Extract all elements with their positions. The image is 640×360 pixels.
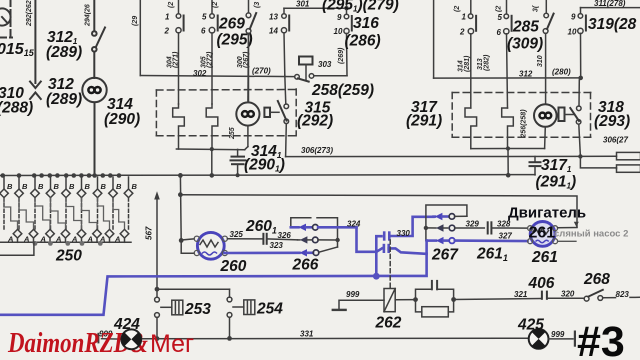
blue wire main run <box>0 241 427 315</box>
blue branch to contacts 330 <box>376 236 381 276</box>
svg-text:(295): (295) <box>217 32 253 49</box>
svg-text:(3: (3 <box>254 2 261 8</box>
switch on wire 310 <box>543 0 553 104</box>
contact 316 pins 9-10 <box>344 14 352 75</box>
svg-text:310: 310 <box>537 55 544 67</box>
svg-text:316: 316 <box>353 15 379 32</box>
wire 312(280) <box>434 77 581 79</box>
capacitor 317_1 <box>530 157 541 175</box>
contact 267 row1 <box>434 213 467 220</box>
svg-text:323: 323 <box>270 241 284 250</box>
svg-text:(271): (271) <box>173 51 180 68</box>
bank output wire <box>0 242 34 255</box>
resistor R1 in box1 <box>173 104 185 149</box>
fuse box top wire <box>157 288 230 290</box>
thermal relay armature 315 <box>264 108 279 117</box>
rotated wire labels 304(271) 305(272) 300(267) <box>167 51 251 68</box>
svg-text:306(273): 306(273) <box>301 146 333 155</box>
contact 319 pins 9-10 <box>578 14 586 78</box>
svg-text:330: 330 <box>397 229 411 238</box>
resistor branch RC <box>416 300 454 312</box>
svg-text:10: 10 <box>568 28 577 37</box>
junction fuse box <box>155 287 160 292</box>
top diamond contacts <box>0 189 133 198</box>
bracket 267 <box>426 205 467 240</box>
svg-text:В: В <box>7 182 13 191</box>
junction dots bus331 <box>155 336 232 341</box>
bracket 266 <box>291 218 338 247</box>
svg-text:(272): (272) <box>207 51 214 68</box>
junction bus2 <box>178 192 183 197</box>
wire 320 <box>547 297 584 299</box>
dashed instrument box <box>0 0 12 38</box>
wire bus1 to bus2 to motor260 <box>179 175 182 240</box>
svg-text:(293): (293) <box>594 113 630 130</box>
svg-text:(282): (282) <box>484 54 491 71</box>
relay 258 armature <box>299 57 313 80</box>
svg-text:303: 303 <box>318 60 332 69</box>
connector fork node 310 <box>30 82 41 100</box>
svg-text:320: 320 <box>561 289 575 298</box>
svg-text:5: 5 <box>498 13 503 22</box>
svg-text:#3: #3 <box>577 318 625 360</box>
svg-text:269: 269 <box>218 16 245 33</box>
svg-text:(289): (289) <box>46 44 82 61</box>
wire 294(263) <box>93 0 95 31</box>
svg-text:6: 6 <box>201 27 206 36</box>
svg-text:2: 2 <box>459 28 465 37</box>
wire 301 <box>284 0 347 14</box>
bank bottom bus <box>0 238 131 242</box>
svg-text:(281): (281) <box>464 55 471 72</box>
svg-text:255: 255 <box>229 127 236 140</box>
bus2 <box>180 195 577 227</box>
svg-text:(2: (2 <box>168 2 175 8</box>
wire to resistor row2 <box>580 156 616 168</box>
contact 330 lower <box>376 245 426 254</box>
svg-text:261: 261 <box>531 249 558 266</box>
resistor R5 right edge <box>617 152 640 159</box>
mechanical link 262 dashed <box>389 240 391 288</box>
svg-text:(309): (309) <box>507 36 543 53</box>
svg-text:сляный насос 2: сляный насос 2 <box>554 229 628 240</box>
junction 266 <box>335 238 339 242</box>
svg-text:В: В <box>54 182 60 191</box>
svg-text:(290): (290) <box>104 111 140 128</box>
wire 567 with arrow <box>154 191 160 297</box>
blue wire 324 branch <box>357 227 377 252</box>
svg-text:302: 302 <box>193 69 207 78</box>
svg-text:(280): (280) <box>552 68 571 77</box>
resistor R2 in box1 <box>206 104 218 149</box>
small rotated marks at top <box>168 2 261 8</box>
svg-text:329: 329 <box>466 220 480 229</box>
switch 318(293) <box>570 80 581 156</box>
svg-text:В: В <box>22 182 28 191</box>
svg-text:(288): (288) <box>0 100 33 117</box>
svg-text:В: В <box>69 182 75 191</box>
contact 266 row3 <box>300 247 338 257</box>
wire 302(270) <box>140 0 294 77</box>
fuse 253 <box>161 300 183 315</box>
svg-text:327: 327 <box>499 231 513 240</box>
B labels row <box>7 182 138 191</box>
svg-text:311(278): 311(278) <box>594 0 626 8</box>
svg-text:425: 425 <box>517 317 544 334</box>
svg-text:268: 268 <box>583 271 610 288</box>
thermal relay armature 318 <box>559 108 575 122</box>
svg-text:292(262: 292(262 <box>26 0 33 27</box>
resistor R3 in box2 <box>465 108 477 149</box>
resistor R6 right edge <box>617 165 640 172</box>
node RC left <box>413 297 418 302</box>
svg-text:14: 14 <box>269 27 278 36</box>
svg-text:(270): (270) <box>252 67 271 76</box>
svg-text:406: 406 <box>528 275 555 292</box>
svg-text:567: 567 <box>145 226 154 240</box>
svg-text:10: 10 <box>334 27 343 36</box>
svg-text:312: 312 <box>519 70 533 79</box>
svg-text:(2: (2 <box>212 2 219 8</box>
wire 999 right <box>549 332 575 346</box>
svg-text:5: 5 <box>202 13 207 22</box>
svg-text:В: В <box>101 182 107 191</box>
wire 328 <box>491 227 527 229</box>
svg-text:326: 326 <box>278 231 292 240</box>
gauge U015 <box>0 8 11 25</box>
svg-text:324: 324 <box>347 220 361 229</box>
wire motor261 right top <box>558 227 577 229</box>
svg-text:306(27: 306(27 <box>603 136 628 145</box>
svg-text:2: 2 <box>164 27 170 36</box>
A labels row <box>7 235 120 244</box>
contact 267 row2 <box>426 224 484 231</box>
contact 266 row1 <box>291 224 357 231</box>
wire 292(262) <box>34 0 36 83</box>
svg-text:321: 321 <box>514 290 528 299</box>
svg-text:(269): (269) <box>338 47 345 64</box>
wire 325 <box>228 238 262 240</box>
contact 266 row2 <box>298 236 338 243</box>
contact 285 pins 5-6 <box>504 0 512 108</box>
contact 267 row3 <box>427 237 528 244</box>
svg-text:3(: 3( <box>533 5 540 12</box>
ground 424 corpus <box>121 329 141 349</box>
svg-text:(289): (289) <box>46 91 82 108</box>
svg-text:999: 999 <box>551 330 565 339</box>
ground 425 corpus <box>529 329 549 349</box>
svg-text:В: В <box>85 182 91 191</box>
bus1 junction dots <box>1 173 240 178</box>
svg-text:13: 13 <box>269 13 278 22</box>
bus1 (minus bus) <box>0 174 535 177</box>
cam stepped wires <box>4 198 125 230</box>
wire 306(273) long line <box>286 155 581 157</box>
svg-text:В: В <box>38 182 44 191</box>
wire R2 to bus <box>211 149 213 175</box>
svg-text:325: 325 <box>230 230 244 239</box>
wire 303 <box>314 75 347 77</box>
wire to resistor row1 <box>580 155 616 157</box>
ground chassis 999 left <box>333 300 384 310</box>
junction 267 <box>424 226 428 230</box>
svg-text:260: 260 <box>220 258 247 275</box>
switch 303 on line 302 <box>295 74 314 82</box>
node RC right <box>451 297 456 302</box>
junction on 312 line <box>578 76 583 81</box>
contact 285 pins 1-2 <box>468 0 476 108</box>
svg-text:(2: (2 <box>454 6 461 12</box>
svg-text:261: 261 <box>529 225 556 242</box>
rotated wire labels 314(281) 313(282) 310 <box>454 5 544 72</box>
svg-text:823: 823 <box>616 290 630 299</box>
svg-text:(286): (286) <box>345 33 381 50</box>
contact 269 pins 13-14 <box>281 8 289 75</box>
junction motor260 feed <box>179 238 184 243</box>
resistor R4 in box2 <box>502 108 514 149</box>
wire 999 to 424 <box>98 334 121 343</box>
svg-text:9: 9 <box>571 13 576 22</box>
svg-text:6: 6 <box>497 28 502 37</box>
svg-text:267: 267 <box>431 247 459 264</box>
wire from (279) top <box>433 0 435 78</box>
svg-text:331: 331 <box>300 329 314 338</box>
wire lamp312 to bus <box>94 102 96 175</box>
contact 269 pins 5-6 <box>209 0 218 104</box>
svg-text:294(26: 294(26 <box>85 4 92 27</box>
lamp 256(258) in box2 <box>534 104 557 148</box>
switch 315(292) <box>278 75 289 157</box>
wire 321 <box>454 299 541 300</box>
cam dashed links <box>4 198 129 229</box>
wire 311(278) corner <box>581 8 640 14</box>
capacitor 325/326 <box>263 234 266 244</box>
motor 260 <box>194 232 227 259</box>
svg-text:(2951)(279): (2951)(279) <box>322 0 399 14</box>
svg-text:254: 254 <box>256 301 283 318</box>
wire 326 <box>267 239 298 240</box>
wire coil to RC <box>395 299 415 301</box>
svg-text:В: В <box>132 182 138 191</box>
capacitor 329/328 <box>488 222 492 233</box>
node line A <box>176 148 244 151</box>
svg-text:266: 266 <box>292 257 319 274</box>
junction R4/line1 <box>506 146 510 150</box>
capacitor branch RC <box>416 281 454 300</box>
junction 301 <box>344 6 348 10</box>
svg-text:(2901): (2901) <box>244 157 285 174</box>
junction 306 line right <box>578 154 582 158</box>
contact 406 <box>542 292 547 299</box>
svg-text:В: В <box>116 182 122 191</box>
svg-text:(292): (292) <box>297 113 333 130</box>
resistor 262 shunt <box>422 307 449 317</box>
switch 268 <box>584 290 615 301</box>
wire R4 down to bus <box>507 149 509 176</box>
fuse 254 <box>233 300 255 315</box>
switch on wire 300 <box>246 0 256 102</box>
svg-text:319(28: 319(28 <box>588 16 637 33</box>
relay coil 262 <box>384 289 395 312</box>
junction line A / R2 <box>210 147 214 151</box>
bottom diamond contacts <box>13 229 129 238</box>
svg-text:253: 253 <box>184 301 211 318</box>
svg-text:(2: (2 <box>496 6 503 12</box>
svg-text:(2911): (2911) <box>536 174 577 191</box>
svg-text:1: 1 <box>165 13 170 22</box>
svg-text:Мег: Мег <box>150 330 194 358</box>
connector pins fuse 253 branch <box>155 297 160 338</box>
capacitor 314_1(290_1) <box>231 149 246 175</box>
lamp 312 <box>82 78 106 102</box>
svg-text:250: 250 <box>55 248 82 265</box>
junction on bus1 <box>506 173 511 178</box>
switch SA312-1 <box>92 28 105 79</box>
wires to motor 260 <box>181 239 194 254</box>
lamp 255 in box1 <box>236 34 259 150</box>
svg-text:(291): (291) <box>406 113 442 130</box>
bus2 arrow into motor <box>574 222 579 227</box>
svg-text:258(259): 258(259) <box>311 82 374 99</box>
svg-text:285: 285 <box>512 19 539 36</box>
bank bus gray dots <box>33 241 103 246</box>
svg-text:9: 9 <box>337 13 342 22</box>
contact 269 pins 1-2 <box>176 0 184 104</box>
svg-text:Двигатель: Двигатель <box>508 205 586 222</box>
blue junction dot <box>373 273 380 280</box>
blue wire 323 <box>225 252 300 255</box>
wire 823 <box>630 296 640 298</box>
node line1 segment <box>471 148 545 150</box>
svg-text:999: 999 <box>346 290 360 299</box>
svg-text:262: 262 <box>375 315 402 332</box>
bus 331 bottom <box>141 337 529 340</box>
contact 330 upper <box>384 217 433 240</box>
wire motor261 right bottom stub <box>558 240 576 242</box>
svg-text:301: 301 <box>296 0 310 9</box>
svg-text:1: 1 <box>462 13 467 22</box>
svg-text:(29: (29 <box>132 16 139 26</box>
connector pins fuse 254 branch <box>227 289 232 338</box>
svg-text:256(258): 256(258) <box>521 109 528 139</box>
